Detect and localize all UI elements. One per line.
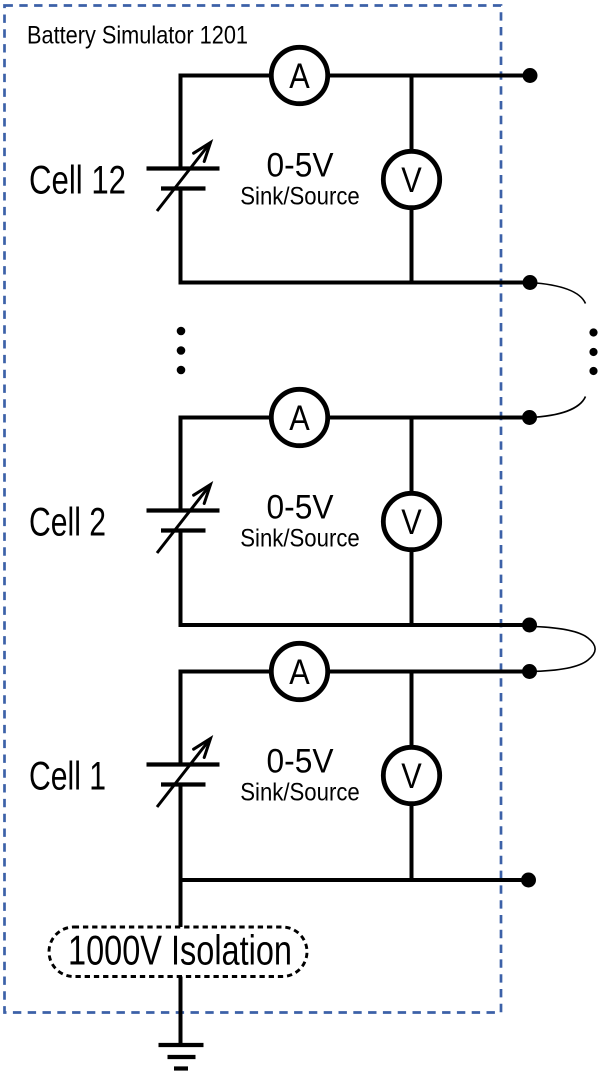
svg-text:Cell 2: Cell 2 xyxy=(29,501,106,545)
svg-text:Sink/Source: Sink/Source xyxy=(240,183,360,211)
ammeter A (cell 2) xyxy=(271,389,327,445)
wire: cell 12 voltmeter branch xyxy=(410,76,414,283)
label: Cell 12 xyxy=(29,159,126,203)
voltmeter V (cell 2) xyxy=(383,493,439,549)
node: cell 12 - terminal xyxy=(523,275,538,290)
value label: 0-5V (cell 1) xyxy=(267,743,334,781)
value label: Sink/Source (cell 12) xyxy=(240,183,360,211)
svg-text:Sink/Source: Sink/Source xyxy=(240,779,360,807)
battery (variable cell) Cell 12 xyxy=(147,143,220,212)
node: cell 2 - terminal xyxy=(522,618,537,633)
svg-text:0-5V: 0-5V xyxy=(267,489,334,527)
wire: jumper arc into cell 2 positive terminal (partial) xyxy=(530,397,586,418)
wire: ground lead above isolation label xyxy=(179,880,183,927)
label: Cell 1 xyxy=(29,755,106,799)
battery (variable cell) Cell 1 xyxy=(147,739,220,808)
label: 1000V Isolation (dashed stadium) xyxy=(49,927,307,977)
label: Cell 2 xyxy=(29,501,106,545)
enclosure: battery simulator boundary (blue dashed box) xyxy=(5,6,502,1013)
svg-text:V: V xyxy=(401,757,422,796)
wire: cell 12 left branch (battery leads) xyxy=(179,74,183,285)
svg-text:V: V xyxy=(401,161,422,200)
svg-text:Battery Simulator 1201: Battery Simulator 1201 xyxy=(27,22,248,50)
wire: cell 1 bottom rail xyxy=(181,878,531,882)
value label: Sink/Source (cell 1) xyxy=(240,779,360,807)
value label: Sink/Source (cell 2) xyxy=(240,525,360,553)
ellipsis: omitted cells (right) xyxy=(589,328,597,375)
svg-text:Sink/Source: Sink/Source xyxy=(240,525,360,553)
svg-text:A: A xyxy=(289,399,310,438)
node: cell 12 + terminal xyxy=(523,68,538,83)
ammeter A (cell 1) xyxy=(271,643,327,699)
wire: cell 1 voltmeter branch xyxy=(410,672,414,881)
ground xyxy=(159,1045,204,1069)
battery (variable cell) Cell 2 xyxy=(147,485,220,554)
voltmeter V (cell 12) xyxy=(383,151,439,207)
wire: cell 2 voltmeter branch xyxy=(410,418,414,626)
node: cell 1 - terminal xyxy=(521,873,536,888)
wire: cell 12 top rail xyxy=(181,74,531,78)
wire: cell 2 top rail xyxy=(181,416,531,420)
svg-text:1000V Isolation: 1000V Isolation xyxy=(68,927,292,974)
ammeter A (cell 12) xyxy=(271,47,327,103)
wire: cell 2 left branch (battery leads) xyxy=(179,416,183,628)
value label: 0-5V (cell 2) xyxy=(267,489,334,527)
ellipsis: omitted cells (left) xyxy=(177,327,186,375)
svg-text:V: V xyxy=(401,503,422,542)
wire: ground lead below isolation label xyxy=(179,977,183,1046)
voltmeter V (cell 1) xyxy=(383,747,439,803)
svg-text:A: A xyxy=(289,57,310,96)
wire: cell 1 top rail xyxy=(181,670,531,674)
wire: cell 12 bottom rail xyxy=(181,281,531,285)
wire: cell 2 bottom rail xyxy=(181,623,531,627)
node: cell 1 + terminal xyxy=(522,664,537,679)
svg-text:0-5V: 0-5V xyxy=(267,147,334,185)
svg-text:0-5V: 0-5V xyxy=(267,743,334,781)
svg-text:A: A xyxy=(289,653,310,692)
wire: jumper arc cell 2 negative to cell 1 positive xyxy=(530,626,596,671)
svg-text:Cell 12: Cell 12 xyxy=(29,159,126,203)
svg-text:Cell 1: Cell 1 xyxy=(29,755,106,799)
wire: jumper arc cell 12 negative terminal (partial) xyxy=(530,283,586,304)
node: cell 2 + terminal xyxy=(522,410,537,425)
wire: cell 1 left branch (battery leads) xyxy=(179,670,183,883)
label: Battery Simulator 1201 xyxy=(27,22,248,50)
value label: 0-5V (cell 12) xyxy=(267,147,334,185)
